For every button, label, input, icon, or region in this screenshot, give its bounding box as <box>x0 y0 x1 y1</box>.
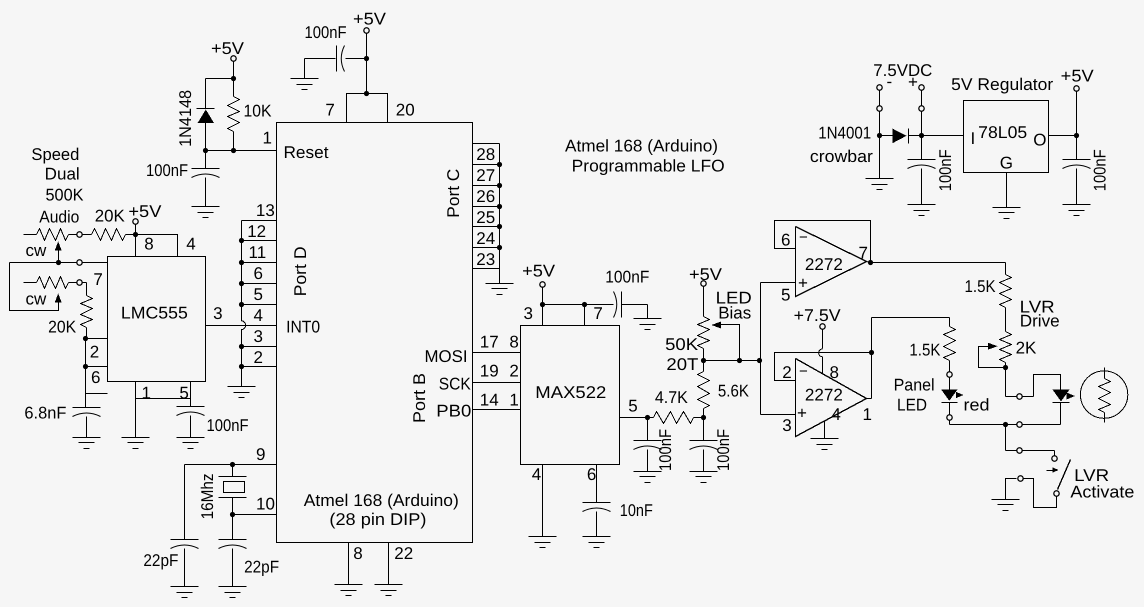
svg-text:10: 10 <box>256 495 275 514</box>
wire pin6 box to 6.8nF cap <box>85 394 87 408</box>
junction dot upper wiper node <box>56 260 61 265</box>
junction dot crystal top <box>230 462 235 467</box>
svg-text:50K: 50K <box>665 335 699 354</box>
svg-text:PB0: PB0 <box>436 402 471 421</box>
wire bypass cap to ground <box>304 59 306 79</box>
wire cathode bus down to switch feed <box>1005 425 1007 451</box>
svg-text:Dual: Dual <box>45 165 80 184</box>
svg-text:20T: 20T <box>666 355 698 374</box>
potentiometer lower 500K audio track <box>24 282 37 284</box>
svg-text:5: 5 <box>254 285 263 304</box>
connector circle switch feed <box>1017 448 1022 453</box>
svg-text:7: 7 <box>93 270 102 289</box>
svg-text:Bias: Bias <box>718 304 751 323</box>
ground (Port C bus) <box>486 283 514 285</box>
svg-text:cw: cw <box>26 290 48 309</box>
svg-text:red: red <box>964 396 990 415</box>
wire LED loop up and over <box>1034 375 1061 397</box>
connector circle switch return <box>1018 476 1023 481</box>
IC U1 Atmel 168 MCU body <box>277 123 473 543</box>
ground (reset cap) <box>192 206 220 208</box>
svg-text:9: 9 <box>256 445 265 464</box>
svg-text:20K: 20K <box>95 207 126 226</box>
junction dot diode anode / reset <box>203 148 208 153</box>
wire +5V terminal down <box>1076 91 1078 136</box>
svg-text:Port D: Port D <box>291 246 310 296</box>
svg-text:7.5VDC: 7.5VDC <box>873 61 932 80</box>
junction dot pin8/+5V/20K node <box>133 232 138 237</box>
terminal +5V (MCU top) <box>364 28 369 33</box>
wire input plus down <box>921 91 923 106</box>
svg-text:I: I <box>971 129 976 148</box>
svg-text:500K: 500K <box>46 186 85 205</box>
junction dot reset supply node <box>231 76 236 81</box>
svg-text:22pF: 22pF <box>244 558 279 577</box>
resistor R3 20K vertical <box>83 282 87 284</box>
svg-text:LED: LED <box>897 396 927 415</box>
svg-text:+5V: +5V <box>353 10 387 29</box>
terminal circle pin7 connector <box>77 260 82 265</box>
ground (MAX bypass) <box>634 318 662 320</box>
svg-text:2: 2 <box>90 343 99 362</box>
junction dot bias rail at + bus <box>757 358 762 363</box>
svg-text:2272: 2272 <box>805 255 843 274</box>
ground (LVR activate) <box>992 499 1020 501</box>
resistor R2 20K series <box>83 234 92 236</box>
svg-text:+: + <box>797 404 807 423</box>
capacitor 100nF MCU top bypass <box>305 58 336 60</box>
svg-text:Programmable LFO: Programmable LFO <box>572 157 725 176</box>
terminal circle upper pot end <box>77 232 82 237</box>
wire MCU pin9 to crystal <box>185 464 277 466</box>
ground (22pF right) <box>219 586 247 588</box>
junction dot MCU bypass node <box>364 56 369 61</box>
op-amp U4A 2272 (top) triangle <box>796 227 867 297</box>
connector circle LED cathode bus <box>1017 422 1022 427</box>
svg-text:1.5K: 1.5K <box>909 341 941 360</box>
ground (output cap) <box>1063 204 1091 206</box>
svg-text:7: 7 <box>593 304 602 323</box>
resistor R1 10K reset pullup <box>233 79 235 97</box>
LED D3 light arrow <box>1067 393 1076 400</box>
svg-text:4: 4 <box>186 235 195 254</box>
connector circle panel LED anode <box>947 372 952 377</box>
Port D pin box column <box>242 220 277 222</box>
junction dot 10K bottom / reset <box>231 148 236 153</box>
potentiometer R8 2K <box>1000 332 1012 363</box>
svg-text:+5V: +5V <box>128 202 162 221</box>
junction dot opamp2 feedback node <box>869 350 874 355</box>
capacitor C1 100nF reset <box>205 151 207 169</box>
op-amp U4B pin2 box and feedback wire <box>775 353 872 381</box>
capacitor C5 22pF right <box>232 515 234 540</box>
switch actuate arrow <box>1047 470 1054 472</box>
wire supply node left to diode <box>206 78 234 80</box>
ground (input minus) <box>866 178 894 180</box>
svg-text:3: 3 <box>524 304 533 323</box>
wire +5V down to node <box>233 62 235 79</box>
wire opamp1 output <box>867 262 871 263</box>
junction dots Port C bus <box>497 162 502 167</box>
terminal +5V (LMC555) <box>133 219 138 224</box>
wire connector to LMC555 pin 7 <box>83 262 108 264</box>
svg-text:25: 25 <box>476 208 495 227</box>
svg-text:Reset: Reset <box>284 143 329 162</box>
capacitor C9 100nF filter B <box>703 418 705 441</box>
wire Port C bus to ground <box>499 269 501 284</box>
resistor R9 1.5K panel LED <box>949 318 951 327</box>
svg-text:24: 24 <box>476 229 495 248</box>
svg-text:3: 3 <box>254 327 263 346</box>
svg-text:22pF: 22pF <box>143 551 178 570</box>
IC U5 78L05 regulator body <box>964 101 1049 173</box>
IC U3 MAX522 body <box>521 326 620 465</box>
trimmer R6 50K 20T <box>703 287 705 317</box>
junction dot crowbar anode <box>877 133 882 138</box>
junction dot bias node (5.6K/50K) <box>701 358 706 363</box>
capacitor C4 22pF left <box>171 539 199 541</box>
junction dot MAX +5V node <box>540 302 545 307</box>
svg-text:10nF: 10nF <box>620 501 653 520</box>
svg-text:1: 1 <box>863 405 872 424</box>
svg-text:Activate: Activate <box>1070 483 1134 502</box>
LDR top lead <box>1104 368 1106 379</box>
svg-text:INT0: INT0 <box>286 318 320 337</box>
svg-text:3: 3 <box>213 304 222 323</box>
svg-text:20K: 20K <box>48 318 77 337</box>
svg-text:+: + <box>908 73 918 92</box>
svg-text:1N4001: 1N4001 <box>818 124 871 143</box>
svg-text:Panel: Panel <box>894 376 935 395</box>
wire panel LED cathode <box>949 403 951 415</box>
resistor R7 1.5K LVR drive <box>1005 263 1007 275</box>
svg-text:6.8nF: 6.8nF <box>24 404 66 423</box>
svg-text:5: 5 <box>628 397 637 416</box>
terminal +5V (MAX522) <box>540 282 545 287</box>
crystal X1 16MHz <box>232 465 234 477</box>
svg-text:6: 6 <box>587 465 596 484</box>
connector circle LED loop A <box>1017 394 1022 399</box>
svg-text:MAX522: MAX522 <box>535 383 606 402</box>
wire +7.5V to opamp2 pin8 with hop <box>822 330 824 349</box>
wire LED cathode bus <box>950 424 1061 426</box>
LMC555 pin2 box <box>86 339 108 367</box>
svg-text:+7.5V: +7.5V <box>794 306 842 325</box>
terminal +5V (reset) <box>231 56 236 61</box>
wire cathode circle to bus <box>949 421 951 425</box>
capacitor C11 100nF output <box>1076 136 1078 160</box>
wire input minus down <box>879 91 881 106</box>
svg-text:16Mhz: 16Mhz <box>198 473 217 519</box>
wire Port D bus to ground <box>241 367 243 387</box>
ground (Port D bus) <box>228 386 256 388</box>
terminal +5V (LED bias) <box>701 281 706 286</box>
switch SW1 lever <box>1058 460 1071 490</box>
svg-text:3: 3 <box>782 416 791 435</box>
svg-text:19: 19 <box>480 361 499 380</box>
svg-text:Port B: Port B <box>410 373 429 423</box>
wire + input bus vertical <box>760 283 762 415</box>
switch bottom terminal circle <box>1054 491 1059 496</box>
wire +5V node to pin7 riser <box>543 304 585 306</box>
wire/shelf SCK pin19 to MAX pin2 <box>473 382 521 384</box>
wire stub to switch top terminal <box>1054 451 1056 456</box>
svg-text:SCK: SCK <box>439 375 472 394</box>
junction dot tab top <box>364 91 369 96</box>
svg-text:4: 4 <box>254 306 263 325</box>
svg-text:O: O <box>1033 131 1046 150</box>
svg-text:Drive: Drive <box>1020 312 1060 331</box>
wiper arrow upper pot <box>55 242 62 251</box>
LDR resistor zigzag <box>1099 379 1111 413</box>
2K wiper arrow <box>988 343 998 350</box>
LED D2 panel red <box>949 378 951 390</box>
wire bias node to opamp + bus <box>704 360 760 362</box>
svg-text:100nF: 100nF <box>605 268 649 287</box>
wire reset node to MCU pin 1 <box>206 150 277 152</box>
svg-text:Atmel 168 (Arduino): Atmel 168 (Arduino) <box>565 137 718 156</box>
junction dot LMC555 pin6 node <box>83 364 88 369</box>
MCU power tab box (pins 7/20) <box>347 94 388 123</box>
svg-text:8: 8 <box>144 235 153 254</box>
ground (MCU top bypass) <box>291 78 319 80</box>
terminal circle input plus <box>919 85 924 90</box>
svg-text:G: G <box>1000 154 1013 173</box>
wire regulator G pin <box>1006 173 1008 208</box>
ground (MAX pin4) <box>529 536 557 538</box>
svg-text:5.6K: 5.6K <box>718 382 750 401</box>
svg-text:5V Regulator: 5V Regulator <box>951 75 1053 94</box>
svg-text:(28 pin DIP): (28 pin DIP) <box>329 510 426 529</box>
LED D3 (vactrol drive) <box>1053 390 1070 402</box>
wire switch return loop <box>1023 479 1057 508</box>
ground (pin5 cap) <box>177 437 205 439</box>
ground (6.8nF) <box>73 437 101 439</box>
wire input to regulator <box>922 135 964 137</box>
svg-text:1: 1 <box>142 384 151 403</box>
capacitor C10 100nF input <box>908 159 936 161</box>
svg-text:14: 14 <box>480 391 499 410</box>
svg-text:100nF: 100nF <box>146 161 188 180</box>
svg-text:Audio: Audio <box>39 208 79 227</box>
ground (regulator G) <box>993 207 1021 209</box>
svg-text:cw: cw <box>26 241 48 260</box>
junction dots Port D bus <box>239 238 244 243</box>
terminal circle input minus <box>877 85 882 90</box>
wire LMC555 pin3 output to INT0 <box>206 325 277 327</box>
resistor R5 5.6K <box>703 409 705 418</box>
svg-text:Speed: Speed <box>31 145 79 164</box>
svg-text:MOSI: MOSI <box>425 347 468 366</box>
Port C pin box column <box>473 143 500 145</box>
wire regulator output <box>1049 135 1077 137</box>
svg-text:22: 22 <box>394 544 413 563</box>
svg-text:20: 20 <box>396 101 415 120</box>
trimmer wiper arrow <box>712 322 722 329</box>
svg-text:100nF: 100nF <box>1091 149 1110 191</box>
svg-text:1: 1 <box>263 129 272 148</box>
svg-text:2: 2 <box>254 348 263 367</box>
capacitor C6 100nF MAX bypass <box>585 304 614 306</box>
op-amp U4B 2272 (bottom) triangle <box>796 359 867 437</box>
connector circle input minus 2 <box>877 106 882 111</box>
wire MAX bypass cap to ground <box>647 305 649 319</box>
svg-text:LMC555: LMC555 <box>121 304 188 323</box>
wire pin9 branch to 22pF <box>184 465 186 540</box>
junction dot MAX pin7 node <box>582 302 587 307</box>
terminal +5V (regulator output) <box>1074 86 1079 91</box>
wire return to ground <box>1006 479 1017 500</box>
capacitor C3 100nF on pin5 <box>190 399 192 407</box>
wire opamp2 + input <box>761 414 796 416</box>
wire hop Port D bus over INT0 wire <box>241 321 246 330</box>
svg-text:11: 11 <box>249 243 267 262</box>
ground (opamp2 pin4) <box>811 438 839 440</box>
wire MCU pin10 to crystal <box>233 514 277 516</box>
svg-text:4: 4 <box>532 465 541 484</box>
svg-text:2: 2 <box>782 363 791 382</box>
wire opamp2 output riser <box>867 398 872 400</box>
svg-text:5: 5 <box>179 384 188 403</box>
LDR bottom lead <box>1104 413 1106 423</box>
ground (filter cap B) <box>690 471 718 473</box>
wire opamp2 pin4 to ground <box>824 421 826 439</box>
svg-text:6: 6 <box>781 231 790 250</box>
wire MCU pin22 to ground <box>388 543 390 585</box>
capacitor C8 100nF filter A <box>647 418 649 441</box>
svg-text:100nF: 100nF <box>305 23 347 42</box>
svg-text:1.5K: 1.5K <box>965 277 997 296</box>
LMC555 pins 1/5 bottom box <box>136 382 191 399</box>
ground (10nF) <box>583 536 611 538</box>
wire opamp1 + input to bus <box>761 282 796 284</box>
svg-text:2: 2 <box>509 361 518 380</box>
wire MAX pin5 output <box>620 417 648 419</box>
junction dot LED cathode bus <box>1003 422 1008 427</box>
svg-text:100nF: 100nF <box>207 416 249 435</box>
ground (input cap) <box>908 204 936 206</box>
junction dot wiper to bias rail <box>737 358 742 363</box>
junction dot regulator output node <box>1074 133 1079 138</box>
svg-text:27: 27 <box>476 166 495 185</box>
svg-text:8: 8 <box>509 332 518 351</box>
ground (LMC555 pin1) <box>122 437 150 439</box>
svg-text:Port C: Port C <box>444 169 463 218</box>
svg-text:100nF: 100nF <box>656 429 675 471</box>
svg-text:17: 17 <box>480 332 499 351</box>
svg-text:1N4148: 1N4148 <box>176 90 195 147</box>
capacitor C2 6.8nF <box>73 407 101 409</box>
svg-text:100nF: 100nF <box>936 149 955 191</box>
svg-text:2272: 2272 <box>805 386 843 405</box>
connector circle input plus 2 <box>919 106 924 111</box>
junction dot opamp1 output <box>868 260 873 265</box>
svg-text:8: 8 <box>353 544 362 563</box>
ground (MCU pin8) <box>335 584 363 586</box>
diode D4 1N4001 crowbar <box>880 135 893 137</box>
photoresistor LDR circle <box>1080 371 1127 418</box>
junction dot crystal bottom <box>230 512 235 517</box>
wire +5V to pin8 node <box>135 225 137 235</box>
LMC555 pin6 box <box>86 367 108 394</box>
svg-text:28: 28 <box>476 145 495 164</box>
svg-text:4.7K: 4.7K <box>655 388 689 407</box>
ground (MCU pin22) <box>375 584 403 586</box>
diode D1 1N4148 (vertical, cathode up) <box>205 79 207 109</box>
wire/shelf MOSI pin17 to MAX pin8 <box>473 352 521 354</box>
svg-text:-: - <box>887 72 893 91</box>
capacitor C7 10nF on MAX pin6 <box>596 465 598 503</box>
svg-text:+: + <box>798 274 808 293</box>
LMC555 pin8 box <box>136 235 178 257</box>
svg-text:Atmel 168 (Arduino): Atmel 168 (Arduino) <box>304 491 459 510</box>
svg-text:5: 5 <box>781 286 790 305</box>
junction dot 2K bottom node <box>1003 365 1008 370</box>
wire 2K node down to LED loop <box>1005 368 1007 397</box>
terminal +7.5V <box>820 324 825 329</box>
switch top terminal circle <box>1052 456 1057 461</box>
wire +5V to MAX pin3 <box>542 287 544 326</box>
svg-text:+5V: +5V <box>1061 67 1095 86</box>
wire/shelf PB0 pin14 to MAX pin1 <box>473 409 521 411</box>
connector circle panel LED cathode <box>947 415 952 420</box>
wire MAX pin4 to ground <box>542 465 544 537</box>
wire LMC555 pin1 to ground <box>135 399 137 438</box>
svg-text:6: 6 <box>254 264 263 283</box>
IC U2 LMC555 body <box>108 257 206 382</box>
wire MCU pin8 to ground <box>348 543 350 585</box>
svg-text:2K: 2K <box>1016 339 1037 358</box>
svg-text:7: 7 <box>325 101 334 120</box>
svg-text:23: 23 <box>476 250 495 269</box>
svg-text:26: 26 <box>476 187 495 206</box>
wire wiper node to pin7 connector <box>10 262 77 264</box>
svg-text:100nF: 100nF <box>714 429 733 471</box>
ground (filter cap A) <box>634 471 662 473</box>
svg-text:6: 6 <box>91 368 100 387</box>
svg-text:12: 12 <box>247 222 266 241</box>
wire +5V to MCU tab <box>366 34 368 94</box>
junction dot DAC out node A <box>645 415 650 420</box>
LED D2 light arrow <box>956 392 964 398</box>
junction dot DAC out node B <box>701 415 706 420</box>
wire pin7 riser <box>584 305 586 326</box>
ground (22pF left) <box>171 586 199 588</box>
terminal circle lower pot end <box>77 280 82 285</box>
junction dot crowbar cathode <box>919 133 924 138</box>
svg-text:crowbar: crowbar <box>810 147 873 166</box>
potentiometer upper 500K audio (speed) track <box>24 234 37 236</box>
svg-text:13: 13 <box>256 201 275 220</box>
svg-text:78L05: 78L05 <box>978 123 1027 142</box>
op-amp U4A pin6 box and feedback wire <box>775 221 871 263</box>
svg-text:10K: 10K <box>244 102 273 121</box>
junction dot LMC555 pin2 node <box>83 336 88 341</box>
svg-text:+5V: +5V <box>211 39 245 58</box>
wire wiper loop left/bottom <box>10 263 59 311</box>
svg-text:1: 1 <box>509 391 518 410</box>
svg-text:+5V: +5V <box>522 262 556 281</box>
resistor R4 4.7K <box>648 417 654 419</box>
wiper arrow lower pot <box>55 294 62 303</box>
